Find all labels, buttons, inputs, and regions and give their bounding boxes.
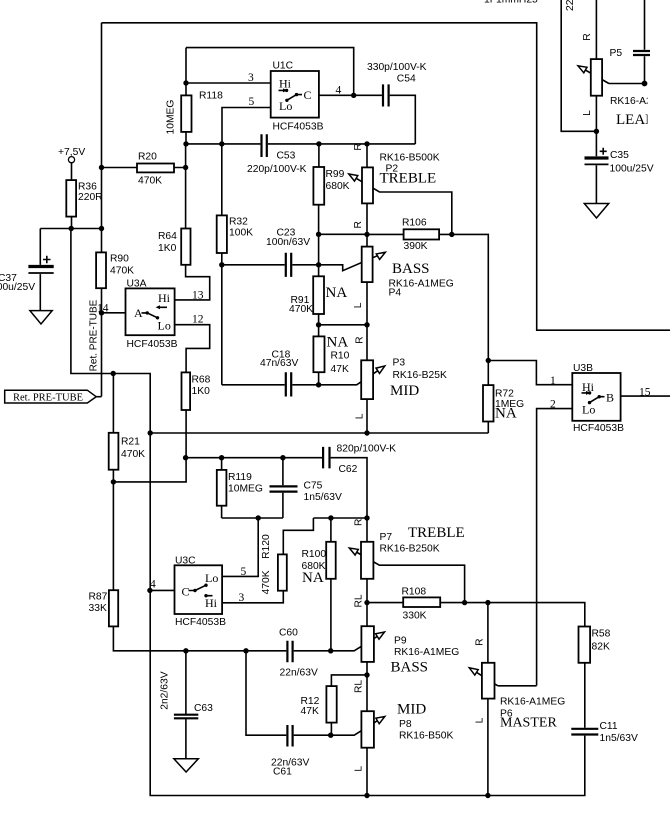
svg-text:NA: NA [302, 570, 324, 586]
svg-text:HCF4053B: HCF4053B [273, 122, 324, 133]
svg-text:+7,5V: +7,5V [58, 147, 85, 158]
svg-text:82K: 82K [592, 642, 610, 653]
svg-text:R72: R72 [495, 389, 514, 400]
svg-text:470K: 470K [289, 304, 313, 315]
svg-text:1: 1 [550, 375, 556, 387]
svg-text:470K: 470K [121, 449, 145, 460]
svg-text:330K: 330K [403, 611, 427, 622]
svg-text:C35: C35 [610, 150, 629, 161]
svg-text:R90: R90 [110, 254, 129, 265]
svg-text:390K: 390K [404, 241, 428, 252]
svg-text:R: R [474, 638, 485, 645]
svg-text:33K: 33K [89, 603, 107, 614]
svg-text:C54: C54 [397, 74, 416, 85]
svg-text:Lo: Lo [205, 571, 218, 585]
svg-text:2n2/63V: 2n2/63V [160, 671, 171, 709]
svg-text:4: 4 [150, 579, 156, 591]
svg-text:Hi: Hi [158, 291, 171, 305]
svg-text:P7: P7 [380, 532, 393, 543]
svg-text:C11: C11 [600, 721, 618, 732]
svg-text:L: L [582, 110, 593, 116]
svg-text:R: R [582, 33, 593, 40]
svg-text:Lo: Lo [582, 403, 595, 417]
svg-text:220p/100V-K: 220p/100V-K [247, 164, 307, 175]
svg-text:BASS: BASS [392, 261, 430, 277]
svg-text:R20: R20 [138, 152, 157, 163]
svg-text:HCF4053B: HCF4053B [127, 339, 178, 350]
svg-text:P3: P3 [393, 358, 406, 369]
svg-text:47n/63V: 47n/63V [260, 358, 298, 369]
svg-text:100u/25V: 100u/25V [0, 282, 35, 293]
svg-text:L: L [353, 302, 364, 308]
svg-text:A: A [134, 306, 143, 320]
svg-text:P4: P4 [389, 288, 402, 299]
svg-text:RK16-B50K: RK16-B50K [399, 731, 454, 742]
svg-text:R10: R10 [331, 351, 350, 362]
svg-text:R64: R64 [158, 231, 177, 242]
svg-text:RK16-A1MEG: RK16-A1MEG [500, 697, 565, 708]
svg-text:220K: 220K [565, 0, 576, 11]
svg-text:5: 5 [241, 566, 247, 578]
svg-text:NA: NA [495, 406, 517, 422]
svg-text:R: R [353, 143, 364, 150]
svg-text:RK16-B500K: RK16-B500K [380, 153, 440, 164]
svg-text:47K: 47K [301, 706, 319, 717]
svg-text:C: C [304, 88, 312, 102]
svg-text:100K: 100K [229, 228, 253, 239]
svg-text:3: 3 [239, 592, 245, 604]
svg-text:470K: 470K [261, 570, 272, 594]
svg-text:12: 12 [192, 314, 204, 326]
svg-text:TREBLE: TREBLE [408, 525, 465, 541]
svg-text:U3A: U3A [127, 279, 147, 290]
svg-text:U1C: U1C [273, 61, 294, 72]
svg-text:470K: 470K [110, 266, 134, 277]
svg-text:NA: NA [327, 335, 349, 351]
svg-text:C60: C60 [279, 628, 298, 639]
svg-text:R21: R21 [121, 437, 140, 448]
svg-text:R: R [354, 336, 365, 343]
svg-text:1n5/63V: 1n5/63V [304, 492, 342, 503]
svg-text:U3B: U3B [573, 363, 593, 374]
svg-text:RK16-A1MEG: RK16-A1MEG [394, 647, 459, 658]
svg-text:C61: C61 [273, 767, 292, 778]
svg-text:100n/63V: 100n/63V [266, 237, 310, 248]
svg-text:470K: 470K [138, 176, 162, 187]
svg-text:MID: MID [397, 702, 426, 718]
svg-text:HCF4053B: HCF4053B [573, 423, 624, 434]
svg-text:MASTER: MASTER [500, 716, 557, 731]
svg-text:RK16-B25K: RK16-B25K [393, 370, 448, 381]
svg-text:RK16-B250K: RK16-B250K [380, 544, 440, 555]
svg-text:C62: C62 [339, 464, 358, 475]
svg-text:C53: C53 [277, 151, 296, 162]
svg-text:P8: P8 [399, 719, 412, 730]
svg-text:R118: R118 [199, 91, 223, 102]
svg-text:R108: R108 [402, 587, 427, 598]
svg-text:C: C [182, 585, 190, 599]
svg-text:C75: C75 [304, 481, 323, 492]
svg-text:L: L [354, 413, 365, 419]
svg-text:RL: RL [354, 680, 365, 693]
svg-text:R106: R106 [402, 218, 427, 229]
svg-text:MID: MID [390, 383, 419, 399]
svg-text:R87: R87 [89, 592, 108, 603]
svg-text:Hi: Hi [279, 77, 292, 91]
svg-text:R120: R120 [261, 534, 272, 559]
svg-text:10MEG: 10MEG [166, 100, 177, 135]
svg-text:Lo: Lo [279, 99, 292, 113]
svg-text:330p/100V-K: 330p/100V-K [367, 62, 427, 73]
svg-text:R: R [354, 519, 365, 526]
svg-text:RL: RL [354, 594, 365, 607]
svg-text:820p/100V-K: 820p/100V-K [337, 444, 397, 455]
svg-text:P9: P9 [394, 636, 407, 647]
svg-text:U3C: U3C [175, 556, 196, 567]
svg-text:5: 5 [249, 96, 255, 108]
svg-text:Hi: Hi [582, 380, 595, 394]
svg-text:NA: NA [326, 285, 348, 301]
svg-text:680K: 680K [326, 181, 350, 192]
svg-text:Ret. PRE-TUBE: Ret. PRE-TUBE [89, 299, 100, 371]
svg-text:BASS: BASS [391, 660, 429, 676]
svg-text:1K0: 1K0 [158, 243, 177, 254]
svg-text:100u/25V: 100u/25V [610, 163, 654, 174]
svg-text:R58: R58 [592, 629, 611, 640]
svg-text:3: 3 [248, 72, 254, 84]
svg-text:L: L [354, 766, 365, 772]
svg-text:4: 4 [336, 85, 342, 97]
svg-text:L: L [474, 717, 485, 723]
svg-text:R100: R100 [302, 549, 327, 560]
svg-text:1K0: 1K0 [192, 386, 211, 397]
svg-text:22n/63V: 22n/63V [280, 668, 318, 679]
svg-text:1n5/63V: 1n5/63V [600, 733, 638, 744]
svg-text:R32: R32 [229, 217, 248, 228]
svg-text:HCF4053B: HCF4053B [175, 617, 226, 628]
svg-text:Ret. PRE-TUBE: Ret. PRE-TUBE [13, 392, 83, 403]
svg-text:Hi: Hi [205, 596, 218, 610]
svg-text:Lo: Lo [158, 319, 171, 333]
svg-text:R68: R68 [192, 375, 211, 386]
svg-text:TREBLE: TREBLE [380, 171, 437, 187]
svg-text:R119: R119 [228, 472, 252, 483]
svg-text:R99: R99 [326, 169, 345, 180]
svg-text:47K: 47K [331, 364, 349, 375]
svg-text:15: 15 [639, 387, 651, 399]
svg-text:R: R [353, 221, 364, 228]
svg-text:10MEG: 10MEG [228, 484, 263, 495]
svg-text:220R: 220R [78, 192, 103, 203]
svg-text:B: B [606, 391, 614, 405]
svg-text:P5: P5 [610, 48, 623, 59]
svg-text:2: 2 [550, 399, 556, 411]
svg-text:1F1mmH25: 1F1mmH25 [484, 0, 538, 6]
svg-text:C63: C63 [194, 703, 213, 714]
svg-text:13: 13 [192, 290, 204, 302]
